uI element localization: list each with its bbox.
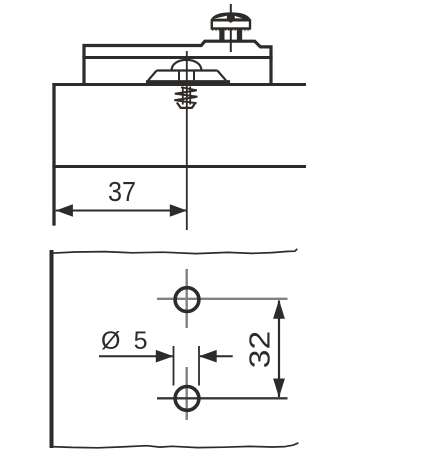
svg-text:37: 37: [108, 176, 136, 207]
svg-text:Ø 5: Ø 5: [101, 327, 148, 355]
svg-text:32: 32: [244, 331, 276, 369]
